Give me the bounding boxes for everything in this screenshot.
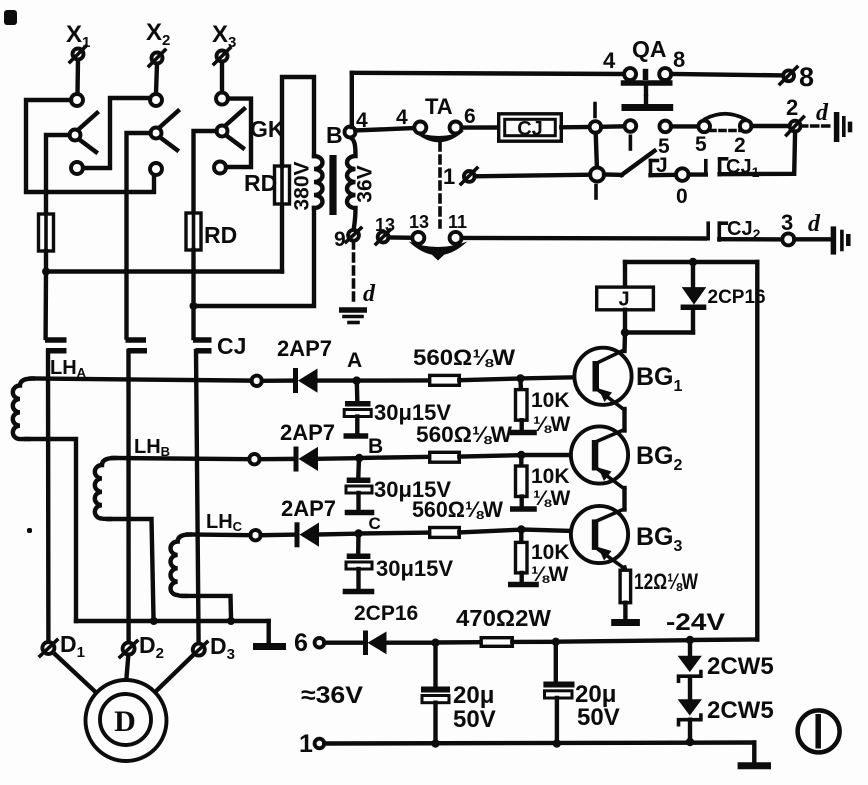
svg-text:RD: RD [244,170,277,196]
svg-text:2AP7: 2AP7 [281,496,336,521]
TA coupling (dashed) [438,143,442,227]
wire X3 terminal to contact [220,62,224,93]
svg-text:470Ω2W: 470Ω2W [456,605,551,631]
wire node F2 to node F3 [556,640,690,642]
node B [355,435,383,462]
wire node A to resistor RA [357,378,430,383]
wire contact CJ1main to terminal D1 [46,351,51,643]
wire connector to diode D-A [262,378,294,383]
wire connector to diode D-B [260,457,295,462]
svg-text:B: B [368,435,383,458]
zener 2CW5 lower [678,697,774,725]
svg-text:CJ: CJ [217,333,246,359]
svg-text:D: D [114,705,136,738]
svg-text:10K: 10K [531,465,570,488]
svg-text:11: 11 [448,212,467,232]
svg-text:36V: 36V [354,165,377,202]
contact J left bar [651,161,658,176]
wire node F1 to resistor 470 [436,640,482,645]
terminal D3 [190,633,235,663]
wire c5 to terminal 2 [752,124,790,128]
wire node CJN to BG1 collector [622,333,627,352]
resistor 470ohm 2W [456,605,551,646]
wire node P2 down to contact CJ3main [191,306,195,338]
fuse RD2 [186,213,237,250]
svg-text:BG3: BG3 [636,523,683,555]
resistor 560 B [416,422,512,462]
svg-text:10K: 10K [531,541,570,564]
wire LHC bus [188,532,250,537]
svg-text:3: 3 [781,210,793,235]
wire D3 to motor [155,654,195,692]
wire resistor RC to node C2 [459,530,517,533]
terminal D1 [40,631,85,661]
svg-text:1: 1 [443,164,455,189]
wire top rail to QA [352,73,624,74]
switch X1 pole (GK) [70,94,98,174]
node CJN [621,328,629,336]
svg-text:B: B [326,122,343,148]
current transformer TA secondary [409,212,468,261]
svg-text:0: 0 [676,185,688,208]
scan blemish top-left [4,10,17,25]
current transformer TA primary [396,94,476,142]
node A2 [516,374,524,382]
wire CJ to contact c1 [561,125,589,130]
svg-text:-24V: -24V [666,609,725,636]
svg-text:GK: GK [250,116,285,142]
svg-text:6: 6 [294,629,308,657]
wire to button 0 [651,173,677,178]
wire 9 to ground d (dashed) [352,241,356,306]
terminal D2 [120,632,164,662]
bottom bus wire [76,619,269,623]
svg-text:50V: 50V [577,704,620,731]
svg-text:⅛W: ⅛W [531,563,569,586]
svg-text:QA: QA [632,36,667,62]
wire LHB bus [113,458,249,459]
node c3 [658,121,671,158]
terminal 8 [780,62,814,92]
diode 2AP7 B [280,420,335,472]
wire terminal 13 to TA secondary [389,235,413,240]
svg-text:LHC: LHC [206,511,243,534]
node C [354,514,380,538]
svg-text:D2: D2 [139,632,164,662]
wire X3 arm to fuse RD2 [194,131,217,214]
node C2 [517,525,525,533]
connector C-line [250,530,260,540]
terminal X2 [146,19,170,66]
capacitor 20u50V 2 [543,642,619,744]
node P1 [42,268,50,276]
wire node C2 to BG3 base [521,530,590,532]
wire contact CJ3main to terminal D3 [196,351,199,644]
wire zener to bottom [688,720,692,743]
contact CJ3main [193,333,246,359]
svg-text:BG1: BG1 [636,363,683,395]
node F3b [686,738,694,746]
svg-text:BG2: BG2 [636,442,683,474]
contact CJ1 [720,156,760,180]
svg-text:X2: X2 [146,19,170,49]
wire terminal 3 to plug d3 [794,237,830,241]
svg-text:4: 4 [396,106,408,129]
terminal X1 [66,21,90,62]
terminal 1 [299,730,324,758]
svg-text:LHB: LHB [134,436,170,459]
svg-text:2CW5: 2CW5 [707,653,774,680]
terminal B-4 [326,109,368,148]
svg-text:50V: 50V [453,706,496,733]
relay coil CJ [462,114,562,141]
switch X2 pole (GK) [150,94,178,175]
wire X1 terminal to contact [75,60,80,94]
zener 2CW5 upper [678,640,774,681]
plug d3 [833,226,848,254]
terminal 3 [781,210,794,245]
wire node C to resistor RC [359,530,430,535]
terminal 13 [375,215,395,244]
svg-text:1: 1 [299,730,313,758]
node A [347,349,362,385]
svg-text:RD: RD [204,222,237,248]
node F1b [431,739,439,747]
wire BG1 emitter to BG2 collector [622,409,626,431]
mechanical link c4-c5 [705,114,745,131]
wire resistor RB to node B2 [459,455,517,456]
node F2 [552,638,560,646]
fuse RD3 [244,166,290,204]
svg-text:D3: D3 [210,633,235,663]
svg-text:6: 6 [464,105,476,128]
node c2 with tick [625,120,637,149]
node LHB-bus [150,617,158,625]
ground d [339,310,367,323]
resistor 560 C [412,497,503,537]
svg-text:20μ: 20μ [453,682,494,709]
resistor 10K C [508,530,570,587]
terminal X3 [212,21,236,64]
bottom return wire [324,743,754,744]
wire node B2 to BG2 base [521,453,590,457]
plug d2 [837,112,850,142]
wire LHB coil bottom to bottom bus [108,519,154,617]
wire node P1 down to contact CJ1main [43,272,48,339]
wire X1 lower contact to X2 top contact [83,98,150,168]
node J pivot with tick [590,168,604,199]
capacitor 20u50V 1 [421,643,496,744]
wire X2 arm down to contact CJ2main [127,133,151,338]
svg-text:2AP7: 2AP7 [277,336,332,361]
wire node F3 to -24V rail corner [690,637,757,642]
resistor 10K A [510,378,571,436]
svg-text:⅛W: ⅛W [533,413,571,436]
relay coil J [597,287,654,310]
node F2b [553,739,561,747]
wire primary bottom to node P2 [194,208,315,306]
contact CJ1main [45,340,67,351]
contact J right bar [704,161,708,175]
wire X2 terminal to contact [156,64,157,94]
svg-text:13: 13 [409,212,429,232]
wire LHA coil bottom to bottom bus [26,439,76,621]
terminal 6 [294,629,324,657]
capacitor 30u15V A [344,381,452,436]
svg-text:560Ω⅛W: 560Ω⅛W [413,345,515,370]
svg-text:⅛W: ⅛W [533,487,571,510]
ground G2 [611,619,640,626]
diode 2AP7 C [281,496,336,547]
svg-text:A: A [347,349,362,372]
wire c1 to c2 [601,124,624,129]
svg-text:4: 4 [603,48,616,73]
terminal 9 [334,228,361,251]
wire terminal 6 to diode [324,641,363,645]
capacitor 30u15V C [343,534,454,592]
wire B4 to TA [355,128,414,131]
wire LHC coil bottom to bottom bus [184,596,231,617]
wire TA secondary to contact CJ2 [462,236,705,241]
wire X1 top contact to X2 lower contact (cross link) [26,100,154,192]
wire terminal 2 to plug d2 (dashed) [801,124,830,128]
capacitor 30u15V B [345,458,452,513]
current transformer LHB [95,436,170,519]
resistor 12ohm [620,569,698,603]
mark circled I [798,710,840,752]
wire fuse RD1 to node P1 [44,251,48,272]
transformer B secondary winding 36V [347,138,377,230]
wire X1 arm to fuse [46,135,70,215]
ground G1 [253,643,286,650]
wire J coil to node CJN [623,310,627,333]
scan speck left [27,528,32,533]
node F1 [431,639,439,647]
svg-text:CJ1: CJ1 [726,156,760,180]
wire BG3 emitter to resistor 12 [622,568,627,571]
svg-text:2CW5: 2CW5 [707,697,774,724]
connector B-line [249,454,259,464]
wire X3 top contact to X3 lower contact [226,99,251,167]
terminal 2 [786,95,804,135]
wire D1 to motor [53,652,97,693]
wire c3 to c4 [671,124,698,128]
svg-text:2: 2 [786,95,798,120]
contact CJ2main [126,340,148,351]
node c5 [734,120,752,157]
right rail -24V [755,262,759,640]
resistor 560 A [413,345,515,385]
svg-text:J: J [618,289,629,311]
wire zener to zener [688,677,692,700]
wire LHA bus [31,379,252,381]
wire diode to node B [318,456,355,461]
svg-text:d: d [808,211,821,237]
wire node P1 to transformer primary via RD3 [46,269,282,273]
wire diode to node F1 [387,641,436,645]
node 0 [676,168,689,208]
node LHC-bus [227,617,235,625]
wire node A2 to BG1 base [521,377,592,378]
svg-text:5: 5 [695,133,707,156]
terminal 1 [443,164,477,189]
current transformer LHA [13,357,87,439]
svg-text:C: C [369,514,381,533]
wire terminal 1 to J pivot [475,175,590,177]
wire contact CJ2 to terminal 3 [719,237,782,242]
wire D2 to motor [126,655,128,680]
wire contact CJ2main to terminal D2 [126,351,131,643]
wire connector to diode D-C [261,532,296,537]
diode 2CP16 main [366,631,387,656]
switch J blade [604,151,668,177]
wire contact CJ1 to terminal 2 [720,132,796,175]
svg-text:2AP7: 2AP7 [280,420,335,445]
wire fuse RD2 to node P2 [191,250,195,306]
svg-text:380V: 380V [291,161,314,210]
svg-text:560Ω⅛W: 560Ω⅛W [416,422,512,447]
wire resistor 12 to ground G2 [623,603,627,619]
svg-text:12Ω⅛W: 12Ω⅛W [634,569,698,594]
switch X3 pole GK [214,93,244,174]
wire diode to node A [318,378,353,382]
wire B4 up to top rail [350,73,354,127]
svg-text:CJ: CJ [517,118,543,140]
node P2 [190,302,198,310]
diode 2AP7 A [277,336,332,393]
connector A-line [252,376,262,386]
svg-text:≈36V: ≈36V [301,682,363,709]
transistor BG1 [574,348,682,410]
node F3 [686,636,694,644]
wire rail to J coil [623,262,627,287]
motor D [86,680,167,761]
diode 2CP16 flyback [681,262,766,333]
transistor BG2 [571,426,683,489]
relay coil J top rail [625,260,757,264]
svg-text:9: 9 [334,228,346,251]
svg-text:8: 8 [673,47,685,72]
fuse RD1 [39,214,54,251]
svg-text:2CP16: 2CP16 [354,602,418,625]
svg-text:10K: 10K [531,389,570,412]
wire node 0 to right bar [689,172,706,176]
transformer B core [329,155,336,215]
svg-text:D1: D1 [60,631,85,661]
wire BG2 emitter to BG3 collector [622,488,626,510]
wire primary left leg upper [282,77,314,166]
svg-text:2: 2 [734,134,746,157]
wire node B to resistor RB [359,457,430,458]
node c1 with tick [590,104,602,133]
wire bus to ground G1 [267,621,271,644]
node c4 [695,121,710,156]
wire primary left leg [280,203,284,272]
wire c1 down to switch J pivot [596,133,597,167]
svg-text:d: d [363,281,376,307]
svg-text:X3: X3 [212,21,236,51]
wire resistor RA to node A2 [459,379,516,381]
breaker QA [603,36,685,108]
wire diode to node C [319,532,354,537]
wire diode to node CJN [625,330,693,334]
wire resistor 470 to node F2 [512,640,556,645]
svg-text:d: d [816,100,829,126]
contact CJ2 [708,218,760,242]
transistor BG3 [571,506,683,569]
node B2 [517,451,525,459]
current transformer LHC [170,511,242,596]
wire bottom to ground G3 [752,743,756,764]
ground G3 [738,762,771,769]
svg-text:560Ω⅛W: 560Ω⅛W [412,497,503,522]
wire QA to terminal 8 [671,74,783,75]
svg-text:TA: TA [425,94,453,119]
svg-text:8: 8 [799,62,814,92]
node rail-diode [689,258,697,266]
transformer B primary winding 380V [314,156,323,208]
resistor 10K B [510,455,571,510]
svg-text:30μ15V: 30μ15V [376,556,453,581]
